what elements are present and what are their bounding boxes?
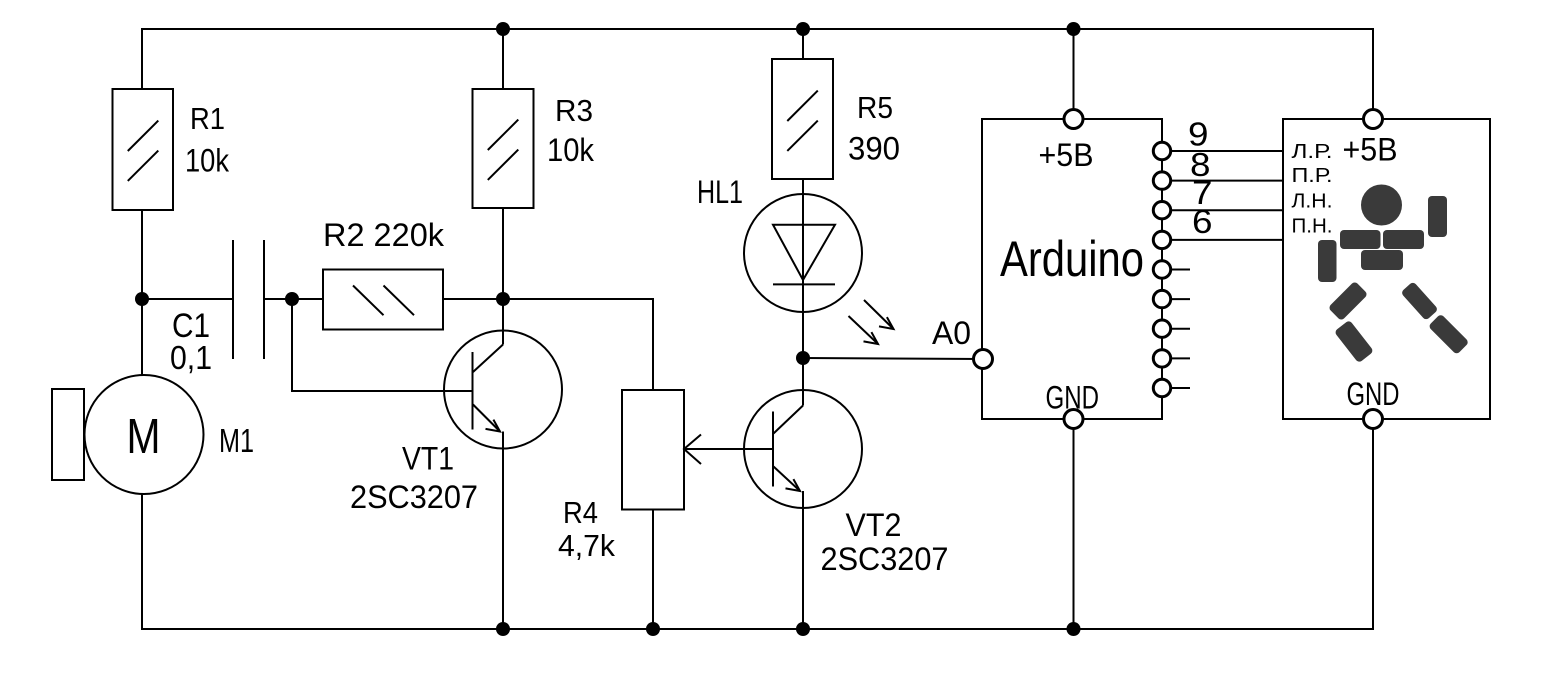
svg-text:Л.Н.: Л.Н. bbox=[1292, 190, 1333, 213]
svg-text:HL1: HL1 bbox=[697, 174, 743, 210]
stub pin 5 bbox=[1162, 269, 1190, 271]
resistor R5 bbox=[772, 29, 833, 179]
svg-text:M1: M1 bbox=[219, 422, 254, 459]
HL1 light arrow 2 bbox=[849, 316, 879, 344]
resistor R2 bbox=[323, 270, 443, 330]
stub pin 4 bbox=[1162, 298, 1190, 300]
node D (LED / VT2 collector / A0) bbox=[796, 351, 810, 365]
svg-text:+5B: +5B bbox=[1039, 137, 1094, 173]
svg-text:П.Н.: П.Н. bbox=[1292, 215, 1333, 238]
wire node C to R4 top bbox=[503, 299, 653, 390]
node dot bottom rail R4 bbox=[646, 622, 660, 636]
robot icon right thigh bbox=[1400, 281, 1438, 321]
node dot top rail R3 column bbox=[496, 22, 510, 36]
wire pin 7 to robot bbox=[1162, 209, 1283, 211]
svg-text:R2 220k: R2 220k bbox=[323, 217, 445, 253]
pin circle 6 bbox=[1153, 231, 1170, 248]
pin circle 5 bbox=[1153, 261, 1170, 278]
svg-text:2SC3207: 2SC3207 bbox=[821, 541, 949, 577]
wire C1 left bbox=[142, 298, 233, 300]
stub pin 1 bbox=[1162, 387, 1190, 389]
robot icon right arm bbox=[1428, 196, 1447, 237]
stub pin 3 bbox=[1162, 328, 1190, 330]
pin circle 8 bbox=[1153, 172, 1170, 189]
terminal robot GND bbox=[1364, 410, 1383, 429]
robot controller box bbox=[1283, 119, 1490, 419]
robot icon belly bbox=[1361, 250, 1403, 270]
capacitor C1 bbox=[233, 240, 264, 359]
wire R1 bottom to node bbox=[141, 210, 143, 375]
pin circle 7 bbox=[1153, 202, 1170, 219]
robot icon head bbox=[1361, 185, 1402, 226]
node dot bottom rail VT2 emitter bbox=[796, 622, 810, 636]
wire top rail bbox=[142, 29, 1373, 119]
svg-text:Arduino: Arduino bbox=[1000, 231, 1144, 287]
wire bottom rail bbox=[142, 419, 1373, 629]
pin circle 2 bbox=[1153, 350, 1170, 367]
robot icon left shoulder bbox=[1340, 230, 1381, 249]
wire C1 right to node B bbox=[264, 298, 323, 300]
svg-text:R1: R1 bbox=[190, 101, 225, 136]
potentiometer R4 bbox=[622, 390, 684, 629]
terminal A0 bbox=[974, 350, 993, 369]
svg-text:R5: R5 bbox=[857, 90, 893, 125]
wire Arduino GND bbox=[1073, 419, 1075, 629]
svg-text:4,7k: 4,7k bbox=[558, 528, 615, 563]
wire R2 right to node C bbox=[444, 298, 503, 300]
svg-text:GND: GND bbox=[1347, 376, 1400, 412]
node dot top rail R5 column bbox=[796, 22, 810, 36]
node B (R2 left junction) bbox=[285, 292, 299, 306]
svg-text:M: M bbox=[127, 410, 161, 464]
terminal robot +5V bbox=[1364, 110, 1383, 129]
wire Arduino +5V bbox=[1073, 29, 1075, 119]
robot icon left shin bbox=[1334, 320, 1374, 364]
robot icon right chest bbox=[1383, 230, 1424, 249]
svg-text:VT1: VT1 bbox=[402, 441, 454, 477]
robot icon right shin bbox=[1428, 314, 1469, 355]
node C (R3/VT1 collector junction) bbox=[496, 292, 510, 306]
node dot bottom rail Arduino GND bbox=[1067, 622, 1081, 636]
stub pin 2 bbox=[1162, 357, 1190, 359]
resistor R3 bbox=[473, 29, 534, 299]
svg-text:R4: R4 bbox=[563, 495, 598, 530]
R4 wiper arrow to VT2 base bbox=[684, 435, 773, 465]
pin circle 3 bbox=[1153, 320, 1170, 337]
svg-text:Л.Р.: Л.Р. bbox=[1292, 140, 1333, 163]
HL1 light arrow 1 bbox=[864, 300, 894, 329]
microphone of M1 bbox=[52, 389, 84, 480]
svg-text:R3: R3 bbox=[555, 93, 593, 128]
wire node B down to VT1 base bbox=[292, 299, 473, 391]
svg-text:10k: 10k bbox=[185, 143, 230, 179]
node A (C1 left junction) bbox=[135, 292, 149, 306]
robot icon left thigh bbox=[1328, 281, 1368, 321]
transistor VT1 bbox=[444, 299, 562, 629]
svg-text:6: 6 bbox=[1192, 203, 1213, 240]
svg-text:VT2: VT2 bbox=[846, 507, 902, 543]
wire pin 8 to robot bbox=[1162, 180, 1283, 182]
LED HL1 bbox=[744, 179, 862, 358]
svg-text:A0: A0 bbox=[932, 315, 971, 351]
resistor R1 bbox=[113, 89, 174, 210]
svg-text:2SC3207: 2SC3207 bbox=[350, 479, 478, 515]
pin circle 1 bbox=[1153, 379, 1170, 396]
transistor VT2 bbox=[744, 358, 862, 629]
motor M1 bbox=[85, 375, 204, 494]
Arduino box bbox=[982, 119, 1162, 419]
wire pin 6 to robot bbox=[1162, 239, 1283, 241]
svg-text:GND: GND bbox=[1046, 380, 1100, 416]
pin circle 4 bbox=[1153, 290, 1170, 307]
terminal Arduino +5V bbox=[1064, 110, 1083, 129]
svg-text:0,1: 0,1 bbox=[170, 339, 212, 376]
svg-text:П.Р.: П.Р. bbox=[1292, 164, 1333, 187]
node dot top rail Arduino column bbox=[1067, 22, 1081, 36]
terminal Arduino GND bbox=[1064, 410, 1083, 429]
svg-text:10k: 10k bbox=[547, 132, 595, 168]
svg-text:390: 390 bbox=[848, 131, 900, 167]
robot icon left arm bbox=[1318, 240, 1337, 282]
wire node D to A0 terminal bbox=[803, 358, 983, 359]
pin circle 9 bbox=[1153, 142, 1170, 159]
node dot bottom rail VT1 emitter bbox=[496, 622, 510, 636]
svg-text:+5B: +5B bbox=[1343, 132, 1398, 168]
wire pin 9 to robot bbox=[1162, 150, 1283, 152]
